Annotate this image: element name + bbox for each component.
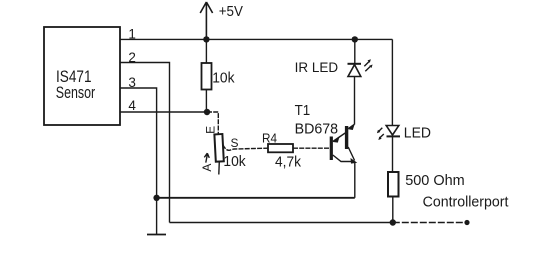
resistor 10k pullup xyxy=(202,63,212,90)
node junction +5V/10k xyxy=(203,36,209,42)
svg-text:IR LED: IR LED xyxy=(295,59,339,75)
wire 500 Ohm to bottom rail xyxy=(392,197,394,223)
IR LED triangle xyxy=(348,65,361,77)
IR LED cathode bar xyxy=(348,63,362,65)
node junction IR LED branch xyxy=(352,36,358,42)
Q2 emitter arrowhead xyxy=(348,124,354,130)
wire LED to 500 Ohm xyxy=(392,136,394,172)
resistor 500 Ohm body xyxy=(388,172,399,197)
wire to controllerport terminal xyxy=(393,222,467,224)
transistor Q2 base bar xyxy=(345,126,348,149)
potentiometer 10k body xyxy=(214,134,223,162)
node junction ground wire xyxy=(153,195,159,201)
node junction pin4 xyxy=(204,109,210,115)
wire junction to pot top xyxy=(207,112,218,136)
svg-text:Sensor: Sensor xyxy=(56,84,96,102)
wire +5V to resistor R 10k xyxy=(205,39,207,63)
node junction 500 Ohm bottom xyxy=(390,219,396,225)
svg-text:E: E xyxy=(203,126,217,134)
svg-text:500 Ohm: 500 Ohm xyxy=(405,172,465,189)
svg-text:4,7k: 4,7k xyxy=(275,154,302,170)
+5V supply arrow xyxy=(200,2,212,39)
wire R4 to transistor base xyxy=(293,147,330,149)
transistor Q2 emitter xyxy=(348,124,354,128)
svg-text:+5V: +5V xyxy=(219,4,243,20)
IC IS471 sensor box xyxy=(44,27,120,125)
wire resistor to pin4 junction xyxy=(205,90,207,113)
transistor Q1 base bar xyxy=(330,137,333,161)
wire pin3 to ground column xyxy=(120,88,157,235)
LED cathode bar xyxy=(387,135,401,137)
pot adjust arrow xyxy=(204,153,209,162)
wire bottom output rail xyxy=(170,222,393,224)
wire pin1 +5V rail xyxy=(120,38,392,40)
pot bottom lead xyxy=(218,162,221,175)
svg-text:Controllerport: Controllerport xyxy=(423,194,509,210)
svg-text:S: S xyxy=(231,136,239,150)
svg-text:10k: 10k xyxy=(212,71,235,87)
svg-text:4: 4 xyxy=(128,98,136,113)
wire top rail corner down to LED xyxy=(391,39,393,125)
transistor Q1 emitter to Q2 base xyxy=(333,133,345,142)
collector junction arrow xyxy=(351,158,358,164)
svg-text:R4: R4 xyxy=(262,132,277,146)
LED light arrows xyxy=(378,128,384,139)
wire pin4 to junction xyxy=(120,111,207,113)
svg-text:T1: T1 xyxy=(295,103,311,119)
svg-text:10k: 10k xyxy=(223,153,246,170)
wire Q2 emitter up to IR LED xyxy=(354,77,356,125)
wire pin2 to output column xyxy=(120,63,170,223)
transistor Q1 collector xyxy=(333,155,352,162)
svg-text:A: A xyxy=(200,164,214,172)
wire mid horizontal xyxy=(157,197,355,199)
svg-text:IS471: IS471 xyxy=(56,68,92,86)
svg-text:LED: LED xyxy=(404,125,431,141)
ground xyxy=(147,234,166,236)
IR LED symbol xyxy=(354,39,356,63)
node controllerport terminal xyxy=(464,220,469,225)
svg-text:BD678: BD678 xyxy=(295,121,339,137)
IR LED light arrows xyxy=(364,62,370,72)
Q1 emitter arrowhead xyxy=(333,137,340,143)
pot wiper wire to R4 xyxy=(223,145,268,151)
transistor Q2 collector xyxy=(348,147,354,161)
wire collector down xyxy=(354,162,356,198)
resistor R4 body xyxy=(268,144,293,152)
LED triangle xyxy=(386,126,399,136)
